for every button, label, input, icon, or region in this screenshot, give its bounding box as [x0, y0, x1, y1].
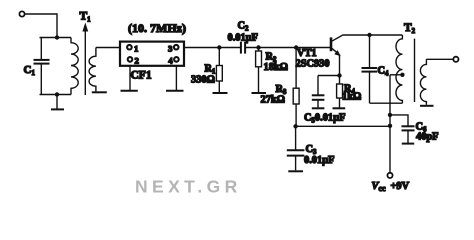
svg-text:C1: C1	[24, 64, 36, 77]
svg-text:0.01µF: 0.01µF	[304, 155, 335, 166]
ground (R1)	[213, 92, 228, 94]
wire (collector rail)	[343, 34, 402, 36]
ground (C3)	[288, 170, 303, 172]
svg-text:C50.01µF: C50.01µF	[304, 112, 345, 124]
node (Vcc rail junction)	[388, 124, 392, 128]
transformer T1 primary winding	[71, 38, 78, 95]
ground (R4)	[333, 107, 346, 109]
resistor R2	[256, 48, 262, 93]
wire (tap to Vcc line)	[390, 74, 402, 76]
input terminal	[19, 11, 24, 16]
svg-text:3: 3	[168, 44, 173, 54]
transistor VT1	[331, 35, 343, 76]
wire (emitter to C5)	[318, 75, 340, 77]
node (tank top junction)	[55, 35, 59, 39]
node (R1 tap)	[217, 45, 221, 49]
svg-text:(10. 7MHz): (10. 7MHz)	[128, 21, 186, 35]
svg-text:T1: T1	[80, 11, 92, 24]
resistor R4	[337, 76, 343, 108]
ground (C6)	[402, 143, 414, 145]
output terminal	[453, 57, 458, 62]
node (T2 primary tap)	[400, 73, 404, 77]
svg-text:+9V: +9V	[391, 181, 410, 192]
ceramic filter CF1 box	[120, 42, 184, 66]
capacitor C1	[34, 38, 50, 95]
svg-text:C4: C4	[378, 66, 390, 78]
ground (C5)	[312, 107, 325, 109]
ground (T2 secondary)	[420, 105, 434, 107]
svg-text:4: 4	[168, 55, 173, 65]
node (R2 tap)	[256, 45, 260, 49]
node (C3 tap)	[293, 124, 297, 128]
node (C4 tap)	[367, 33, 371, 37]
resistor R3	[293, 48, 299, 127]
wire (T1 secondary to CF1 pin 1)	[96, 47, 120, 49]
wire (CF1 pin2 to ground)	[129, 66, 131, 91]
T2 core	[414, 39, 416, 102]
ground (tank)	[51, 95, 64, 110]
node (tank bottom junction)	[55, 92, 59, 96]
node (C6 tap)	[388, 113, 392, 117]
svg-text:VT1: VT1	[297, 48, 317, 59]
ground (CF1 pin4)	[166, 90, 184, 92]
ground (R2)	[252, 92, 267, 94]
svg-text:Vcc: Vcc	[372, 181, 386, 193]
wire (tank bottom rail)	[40, 94, 72, 96]
capacitor C4	[362, 35, 378, 103]
svg-text:2: 2	[135, 55, 140, 65]
capacitor C6	[402, 126, 415, 143]
wire (Vcc vertical)	[389, 75, 391, 173]
wire (tank top rail)	[40, 37, 72, 39]
svg-text:330Ω: 330Ω	[191, 75, 215, 86]
wire (input to tank top)	[25, 14, 57, 37]
ground (T1 secondary)	[92, 91, 107, 93]
svg-text:27kΩ: 27kΩ	[261, 95, 286, 106]
resistor R1	[216, 48, 222, 93]
wire (C4 bottom to T2 primary bottom)	[370, 102, 403, 104]
terminal Vcc	[387, 173, 392, 178]
wire (C6 branch)	[390, 115, 408, 126]
svg-text:0.01µF: 0.01µF	[228, 33, 259, 44]
T1 core with tuning arrow	[82, 23, 88, 96]
CF1 pin 1	[127, 45, 132, 50]
svg-text:CF1: CF1	[131, 70, 152, 82]
ground (CF1 pin2)	[121, 90, 138, 92]
svg-text:T2: T2	[404, 22, 416, 35]
svg-text:1kΩ: 1kΩ	[342, 92, 361, 103]
transformer T2 primary winding	[396, 35, 402, 103]
svg-text:2SC930: 2SC930	[296, 59, 330, 70]
CF1 pin 2	[128, 57, 133, 62]
svg-text:C2: C2	[238, 21, 250, 33]
transformer T2 secondary winding	[420, 59, 426, 105]
svg-text:1: 1	[134, 44, 138, 54]
CF1 pin 3	[174, 45, 179, 50]
wire (CF1 pin4 to ground)	[175, 66, 177, 91]
svg-text:NEXT.GR: NEXT.GR	[135, 176, 242, 196]
transformer T1 secondary winding	[89, 48, 96, 92]
capacitor C5 (emitter bypass)	[312, 76, 325, 108]
capacitor C3	[287, 126, 305, 170]
wire (CF1 pin3 to C2)	[184, 47, 241, 49]
svg-text:40pF: 40pF	[416, 132, 439, 143]
wire (C2 to base)	[246, 47, 330, 49]
node (emitter)	[337, 73, 341, 77]
svg-text:18kΩ: 18kΩ	[264, 62, 289, 73]
wire (T2 secondary to output)	[426, 58, 453, 60]
wire (Vcc rail)	[296, 125, 390, 127]
capacitor C2	[241, 42, 245, 54]
node (R3 tap)	[294, 45, 298, 49]
CF1 pin 4	[174, 57, 179, 62]
